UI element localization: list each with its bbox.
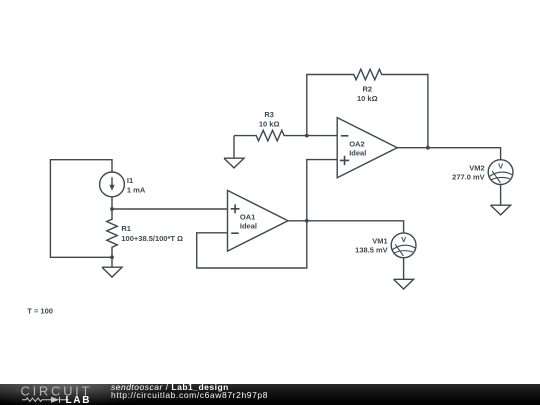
svg-text:10 kΩ: 10 kΩ [259,120,280,129]
junction node at R1 bottom [110,255,114,259]
ground below VM2 [491,205,511,215]
voltmeter VM1 [391,233,416,258]
op-amp OA1 [228,190,289,251]
resistor R3 [234,130,307,141]
svg-text:R1: R1 [121,224,131,233]
wire VM1 to ground [403,258,405,280]
wire OA2 + input down to OA1 output node [307,160,337,221]
junction node A at I1/R1/OA1 [110,207,114,211]
svg-text:10 kΩ: 10 kΩ [357,94,378,103]
op-amp OA2 [337,118,397,178]
wire I1 bottom to node A [111,197,113,209]
svg-text:LAB: LAB [66,395,92,405]
ground below R1 [102,257,122,277]
CircuitLab logo [0,384,100,405]
junction node at OA1 output [305,219,309,223]
svg-text:138.5 mV: 138.5 mV [355,246,388,255]
wire VM2 to ground [500,185,502,206]
svg-text:OA2: OA2 [349,139,364,148]
ground left of R3 [224,136,244,168]
svg-text:Ideal: Ideal [349,148,366,157]
wire OA1 - input feedback loop [197,221,307,268]
svg-text:VM1: VM1 [372,237,387,246]
footer url text [111,391,268,400]
svg-text:R3: R3 [264,110,274,119]
svg-text:R2: R2 [363,85,373,94]
svg-text:VM2: VM2 [469,164,484,173]
svg-text:1 mA: 1 mA [127,185,146,194]
svg-text:277.0 mV: 277.0 mV [452,172,485,181]
voltmeter VM2 [488,160,513,185]
svg-text:Ideal: Ideal [240,222,257,231]
svg-text:V: V [401,235,407,244]
wire node A to OA1 + input [112,208,228,210]
wire feedback loop with resistor R2 [307,69,428,148]
wire left loop from I1 top around to R1 bottom [50,160,112,258]
resistor R1 [107,209,118,257]
junction node at OA2 output [426,146,430,150]
svg-text:OA1: OA1 [240,212,255,221]
junction node at R3/R2/OA2 - input [305,134,309,138]
wire OA2 output to VM2 [397,148,500,160]
svg-text:I1: I1 [127,176,133,185]
footer title text [111,383,229,392]
ground below VM1 [394,279,414,289]
wire R3 node to OA2 - input [307,135,337,137]
svg-text:V: V [498,162,504,171]
wire OA1 output to VM1 [288,221,404,233]
current source I1 [100,172,125,197]
svg-text:T = 100: T = 100 [27,307,53,316]
footer bar [0,384,540,405]
svg-text:100+38.5/100*T Ω: 100+38.5/100*T Ω [121,234,183,243]
